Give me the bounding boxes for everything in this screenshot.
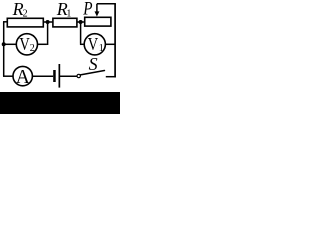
svg-text:A: A (16, 67, 30, 88)
svg-text:P: P (82, 0, 93, 19)
svg-text:1: 1 (99, 43, 104, 54)
svg-text:V: V (19, 34, 30, 55)
svg-text:2: 2 (30, 43, 35, 54)
svg-text:2: 2 (23, 8, 28, 19)
svg-text:1: 1 (66, 8, 71, 19)
svg-text:S: S (89, 54, 98, 74)
svg-text:V: V (88, 34, 99, 55)
